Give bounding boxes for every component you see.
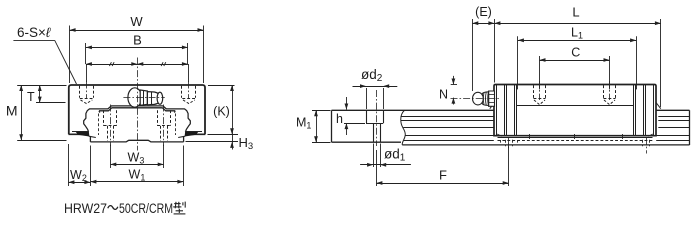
hidden rail bolt hole at 2F (right) — [642, 140, 644, 147]
leg inner step line right — [186, 131, 202, 133]
end seal bottom step right — [648, 134, 653, 136]
dimension B — [86, 47, 188, 49]
end plate lines right (double) — [643, 85, 645, 136]
block side view outline — [494, 85, 656, 136]
counterbore hole in rail (section) — [366, 110, 368, 123]
dimension L1 — [518, 40, 636, 42]
svg-text:N: N — [439, 88, 448, 102]
block/rail seam line — [516, 105, 633, 107]
ditto mark at x=162.1 — [161, 62, 163, 66]
rail groove lines left of block — [401, 116, 494, 118]
block tapped hole (side view) at x=609.5 — [603, 85, 605, 99]
svg-text:h: h — [336, 112, 343, 126]
hidden rail bolt hole at F (left) — [500, 140, 502, 143]
ditto mark at x=110.4 — [109, 62, 111, 66]
end seal bottom step left — [497, 134, 502, 136]
rail hole centerline at x=163.7 — [163, 105, 165, 147]
dimension W — [70, 30, 204, 32]
dimension ød2 — [353, 86, 398, 88]
dimension M — [21, 85, 23, 140]
nipple nut lines — [489, 94, 495, 96]
block bottom seal line — [498, 137, 653, 139]
svg-text:(E): (E) — [475, 5, 492, 19]
svg-text:L: L — [572, 5, 579, 20]
seal joint ticks — [529, 134, 531, 139]
svg-text:B: B — [133, 33, 142, 48]
svg-text:C: C — [571, 46, 580, 60]
grease nipple (front view) — [128, 88, 163, 107]
rail left shoulder dropoff into groove — [98, 111, 101, 113]
rail side view: top edge — [332, 109, 690, 111]
dimension ød1 — [373, 144, 375, 168]
svg-text:F: F — [439, 168, 447, 183]
rail bottom line full width — [402, 144, 689, 146]
dimension N — [451, 84, 457, 86]
svg-text:T: T — [27, 90, 35, 104]
dimension F — [376, 150, 378, 186]
block tapped hole (side view) at x=539.5 — [533, 85, 535, 99]
svg-text:50CR/CRM: 50CR/CRM — [119, 201, 173, 216]
hidden rail waist line left — [98, 114, 100, 136]
dimension W1 — [183, 146, 185, 187]
end seal inner lines — [496, 85, 498, 136]
rail hole centerline at x=110.3 — [110, 105, 112, 147]
leg inner step line left — [72, 131, 88, 133]
nipple horizontal centerline — [123, 97, 164, 99]
dimension W2 — [68, 144, 70, 186]
hidden rail waist line right — [175, 114, 177, 136]
grease nipple (side view) — [473, 91, 495, 106]
rail top: shoulders, chamfers, center plateau — [99, 108, 175, 111]
rail left end face — [331, 110, 333, 142]
block inner cavity contour left leg — [84, 109, 93, 132]
end seal lip right (filled) — [185, 132, 199, 137]
B/2 chain dimension line with ditto marks — [86, 64, 188, 66]
kanji 型 vector — [173, 202, 185, 214]
nipple centerline — [451, 98, 501, 100]
rail bottom edge with center bump — [90, 140, 183, 142]
rail right shoulder dropoff into groove — [173, 111, 176, 113]
end plate lines left (double) — [504, 85, 506, 136]
dimension H3 — [208, 134, 239, 136]
svg-text:(K): (K) — [213, 105, 230, 119]
dimension (E) — [472, 23, 494, 25]
rail bolt hole (counterbore) at x=163.7 (hidden) — [157, 110, 159, 126]
block leg bottom edges — [69, 133, 90, 135]
hidden rail edge under block (dashed) — [498, 140, 653, 142]
hole centerline at x=86.4 — [86, 82, 88, 99]
rail bottom flange left: top ledge and side — [89, 136, 96, 137]
dimension (K) — [208, 85, 235, 87]
dimension M1 — [316, 110, 318, 142]
block inner ceiling following rail profile — [93, 106, 182, 109]
rail right end face — [689, 110, 691, 145]
rail bottom flange right: top ledge and side — [178, 136, 185, 137]
dimension T — [39, 85, 41, 103]
dimension L — [494, 23, 661, 25]
dimension C — [540, 60, 610, 62]
end seal lower lip chamfer left — [490, 103, 494, 108]
svg-text:HRW27: HRW27 — [64, 201, 107, 216]
hole centerline at x=188.9 — [188, 82, 190, 99]
svg-text:6-S×ℓ: 6-S×ℓ — [17, 25, 51, 40]
break line (S-curve partial section boundary) — [401, 110, 406, 145]
rail bottom edge (section zone) — [332, 141, 402, 143]
rail bolt hole (counterbore) at x=110.3 (hidden) — [103, 110, 105, 126]
svg-text:W: W — [130, 14, 143, 29]
block cross-section outer outline — [69, 85, 205, 134]
end seal lower lip chamfer right — [656, 103, 661, 109]
rail groove lines right of block — [658, 116, 689, 118]
svg-text:M: M — [6, 103, 18, 119]
tapped hole S×ℓ at x=188.9 (hidden) — [181, 86, 183, 98]
left view vertical centerline — [137, 58, 139, 151]
dimension h — [346, 97, 348, 110]
tapped hole S×ℓ at x=86.4 (hidden) — [79, 86, 81, 98]
hole centerline — [376, 90, 378, 146]
end seal lip left (filled) — [76, 132, 90, 137]
nipple thread rings — [483, 92, 488, 105]
block inner cavity contour right leg — [182, 109, 191, 132]
dimension W3 — [110, 145, 112, 169]
